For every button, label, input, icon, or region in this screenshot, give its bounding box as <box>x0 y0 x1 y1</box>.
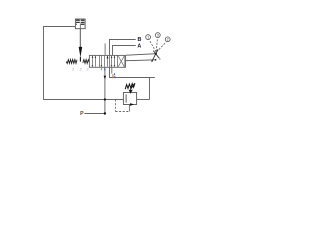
svg-text:1: 1 <box>147 35 149 39</box>
svg-text:2: 2 <box>167 38 169 42</box>
svg-text:A: A <box>137 43 141 49</box>
svg-text:P: P <box>80 111 84 117</box>
svg-text:3: 3 <box>157 33 159 37</box>
svg-text:B: B <box>138 37 142 43</box>
svg-text:1: 1 <box>72 67 74 71</box>
